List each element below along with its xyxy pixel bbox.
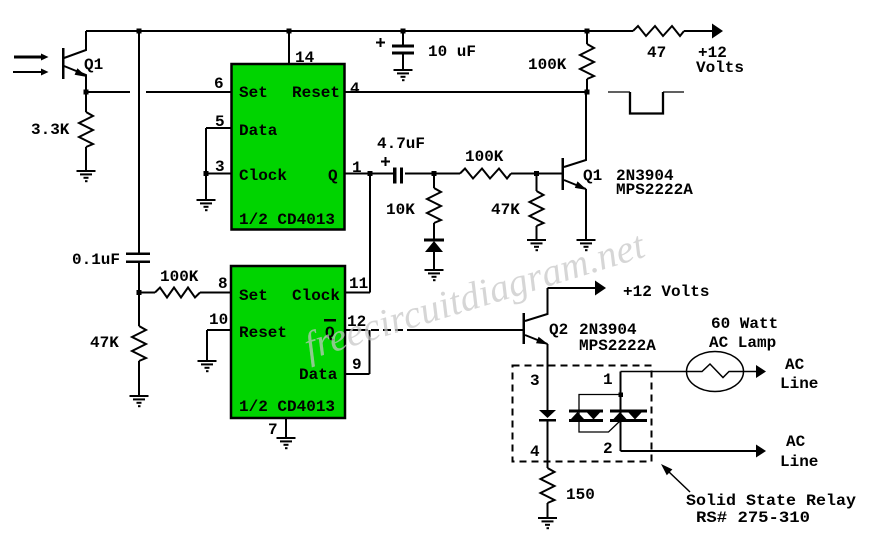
svg-text:Line: Line (780, 453, 818, 471)
svg-text:7: 7 (268, 421, 278, 439)
svg-text:9: 9 (352, 356, 362, 374)
wire AC line 1 to lamp (621, 371, 688, 373)
ground below D1 (425, 269, 444, 281)
resistor 47K (left) (132, 292, 146, 395)
ground below pin 7 (277, 437, 296, 449)
svg-text:47K: 47K (90, 334, 119, 352)
capacitor 4.7uF (370, 173, 393, 175)
resistor 100K coupling (horizontal) (434, 173, 460, 175)
node triac gate junction (619, 393, 624, 398)
svg-text:60 Watt: 60 Watt (711, 315, 778, 333)
wire +12V branch at Q2 collector (548, 287, 599, 289)
svg-text:Reset: Reset (292, 84, 340, 102)
wire pin 10 reset to ground (207, 330, 231, 360)
svg-text:AC: AC (786, 433, 806, 451)
svg-text:1/2 CD4013: 1/2 CD4013 (239, 211, 335, 229)
wire triac gate loop (579, 395, 621, 433)
+12 Volts supply arrow (712, 24, 723, 39)
svg-text:150: 150 (566, 486, 595, 504)
wire D1 to ground (433, 252, 435, 269)
ground below pin 3 (197, 199, 216, 211)
svg-text:Q: Q (328, 167, 338, 185)
svg-text:10 uF: 10 uF (428, 43, 476, 61)
svg-text:10: 10 (209, 311, 228, 329)
svg-text:1: 1 (603, 371, 613, 389)
label plus sign 10uF (376, 38, 385, 47)
svg-text:Set: Set (239, 287, 268, 305)
svg-text:MPS2222A: MPS2222A (616, 181, 693, 199)
wire +12V supply rail (86, 30, 716, 32)
node rail junction at vertical bus (137, 29, 142, 34)
node set junction (137, 290, 142, 295)
svg-text:4: 4 (350, 80, 360, 98)
svg-text:3: 3 (215, 158, 225, 176)
wire Q output pin 1 (344, 173, 370, 175)
wire pin 1 junction down to pin 11 (369, 174, 371, 293)
node pin3 junction (204, 171, 209, 176)
svg-text:Line: Line (780, 375, 818, 393)
svg-text:0.1uF: 0.1uF (72, 251, 120, 269)
svg-text:AC Lamp: AC Lamp (709, 334, 776, 352)
wire vertical bus from rail to 0.1uF (138, 31, 140, 253)
node Q1 base junction (534, 171, 539, 176)
wire pin 7 to ground (285, 418, 287, 437)
ground below 47K base (527, 239, 546, 251)
light input arrows (13, 54, 49, 76)
wire relay output pin1 to pin2 (vertical) (620, 372, 622, 452)
svg-text:4: 4 (530, 443, 540, 461)
ground below Q1 emitter (577, 239, 596, 251)
triac opto (left) (569, 410, 603, 423)
wire pin 14 to rail (288, 31, 290, 63)
diode clamp D1 (424, 239, 444, 253)
svg-text:RS# 275-310: RS# 275-310 (696, 509, 810, 527)
svg-text:10K: 10K (386, 201, 415, 219)
svg-text:100K: 100K (160, 268, 199, 286)
svg-text:6: 6 (214, 75, 224, 93)
ground below 10uF (394, 69, 413, 81)
svg-text:47K: 47K (491, 201, 520, 219)
svg-text:1: 1 (352, 159, 362, 177)
ground below 47K left (130, 395, 149, 407)
transistor Q1 2N3904 (562, 92, 588, 239)
svg-text:MPS2222A: MPS2222A (579, 337, 656, 355)
flip-flop U2 1/2 CD4013 (lower body) (231, 266, 345, 418)
svg-text:AC: AC (785, 356, 805, 374)
svg-text:Data: Data (299, 366, 338, 384)
phototransistor Q1 (62, 31, 87, 92)
resistor 47K base (vertical) (530, 174, 544, 240)
resistor 47 (supply) (633, 26, 684, 36)
wire AC line 2 arrow (621, 450, 759, 452)
triac main (right) (610, 410, 647, 423)
wire emitter node to pin 6 (gap at bus crossing) (86, 91, 231, 93)
wire pin 9 data feedback (345, 330, 370, 374)
node rail junction at 100K pull-up (585, 29, 590, 34)
capacitor 10uF (402, 31, 404, 45)
svg-text:14: 14 (295, 49, 315, 67)
svg-text:1/2 CD4013: 1/2 CD4013 (239, 398, 335, 416)
svg-text:Volts: Volts (696, 59, 744, 77)
svg-text:2: 2 (603, 440, 613, 458)
transistor Q2 2N3904 (523, 288, 549, 410)
wire reset pin 4 to pull-up node (344, 91, 587, 93)
resistor 10K (427, 174, 441, 240)
ground below pin 10 (198, 360, 217, 372)
svg-text:Q1: Q1 (583, 167, 602, 185)
svg-text:100K: 100K (528, 56, 567, 74)
resistor 3.3K (79, 92, 93, 170)
LED inside relay (539, 410, 556, 422)
wire pins 5 and 3 tied to ground (206, 128, 231, 199)
relay pointer arrow (668, 471, 690, 492)
ground below 150 (538, 517, 557, 529)
svg-text:4.7uF: 4.7uF (377, 135, 425, 153)
svg-text:+12 Volts: +12 Volts (623, 283, 709, 301)
solid state relay dashed box (513, 366, 652, 462)
capacitor 0.1uF (126, 253, 150, 264)
svg-text:3.3K: 3.3K (31, 121, 70, 139)
pulse waveform annotation (608, 92, 684, 114)
node rail junction at pin 14 (287, 29, 292, 34)
ground below 3.3K (77, 170, 96, 182)
node reset/collector junction (585, 90, 590, 95)
svg-text:Solid State Relay: Solid State Relay (686, 492, 856, 510)
resistor 100K pull-up (vertical) (580, 31, 594, 92)
node pin 1 junction (368, 171, 373, 176)
svg-text:Clock: Clock (239, 167, 287, 185)
node rail junction at 10uF (401, 29, 406, 34)
svg-text:Clock: Clock (292, 287, 340, 305)
node Q1 emitter junction (84, 90, 89, 95)
lamp 60W (687, 352, 744, 392)
svg-text:47: 47 (647, 44, 666, 62)
svg-text:100K: 100K (465, 148, 504, 166)
svg-text:5: 5 (215, 113, 225, 131)
svg-text:11: 11 (349, 275, 368, 293)
svg-text:Q2: Q2 (549, 321, 568, 339)
label plus sign 4.7uF (381, 157, 390, 166)
wire AC line 1 arrow (743, 371, 758, 373)
resistor 150 (541, 468, 555, 517)
svg-text:Reset: Reset (239, 324, 287, 342)
svg-text:8: 8 (218, 275, 228, 293)
wire LED to pin 4 / 150 resistor (547, 421, 549, 468)
resistor 100K set (horizontal) (155, 288, 200, 298)
flip-flop U1 1/2 CD4013 (upper body) (232, 64, 345, 230)
svg-text:Q1: Q1 (84, 56, 103, 74)
wire Q-bar pin 12 to Q2 base (345, 329, 523, 331)
wire 0.1uF to set node (138, 263, 140, 292)
svg-text:3: 3 (530, 372, 540, 390)
svg-text:Data: Data (239, 122, 278, 140)
node cap/10K junction (432, 171, 437, 176)
svg-text:Set: Set (239, 84, 268, 102)
